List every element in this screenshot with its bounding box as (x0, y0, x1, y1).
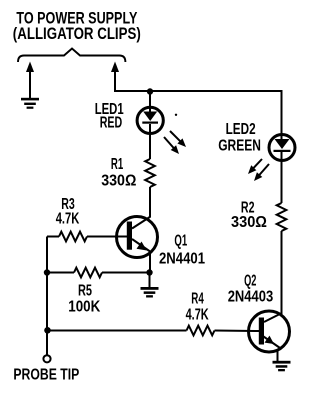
svg-text:100K: 100K (68, 298, 100, 315)
svg-text:Q1: Q1 (174, 232, 187, 249)
svg-text:(ALLIGATOR CLIPS): (ALLIGATOR CLIPS) (13, 24, 141, 43)
svg-text:GREEN: GREEN (218, 138, 261, 155)
svg-text:R1: R1 (111, 156, 123, 173)
svg-text:330Ω: 330Ω (101, 172, 136, 189)
svg-text:2N4403: 2N4403 (228, 288, 274, 305)
svg-text:R5: R5 (78, 283, 92, 300)
svg-text:2N4401: 2N4401 (159, 250, 205, 267)
svg-text:4.7K: 4.7K (56, 211, 80, 228)
svg-text:LED2: LED2 (226, 121, 256, 138)
svg-text:4.7K: 4.7K (186, 307, 209, 324)
svg-text:330Ω: 330Ω (231, 214, 267, 231)
svg-text:R4: R4 (191, 290, 204, 307)
svg-text:PROBE TIP: PROBE TIP (13, 366, 79, 383)
svg-text:RED: RED (100, 115, 123, 132)
svg-text:Q2: Q2 (244, 273, 256, 290)
